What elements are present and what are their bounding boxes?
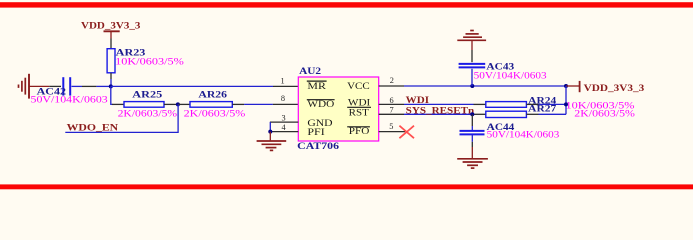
vertical wire right (VDD down to AR24/AR27)	[565, 86, 567, 114]
wire ground to AC42	[29, 85, 49, 87]
pin 3 wire	[270, 121, 298, 123]
pin 7 RST label	[349, 106, 394, 118]
pin 2 VCC label	[347, 76, 394, 91]
svg-text:WDO_EN: WDO_EN	[67, 122, 119, 132]
pin 5 wire + no-connect X	[379, 126, 414, 139]
pin 4 wire	[270, 131, 298, 133]
pin 8 WDO label	[281, 94, 335, 109]
resistor AR23	[107, 39, 184, 87]
resistor AR24	[474, 96, 636, 111]
svg-text:AR25: AR25	[132, 90, 163, 100]
node C (junction pin3/pin4)	[268, 130, 272, 134]
power port VDD_3V3_3 (top left)	[81, 21, 141, 39]
svg-text:2K/0603/5%: 2K/0603/5%	[184, 109, 246, 119]
wire pin 6 (WDI net)	[379, 103, 404, 105]
svg-text:AR26: AR26	[198, 90, 227, 100]
svg-text:1: 1	[281, 77, 285, 86]
svg-text:SYS_RESETn: SYS_RESETn	[406, 105, 475, 115]
node B (junction AR25/AR26)	[176, 102, 180, 106]
svg-text:PFI: PFI	[307, 127, 324, 137]
node F (junction AR24 row)	[564, 102, 568, 106]
pin 4 PFI label	[282, 123, 325, 137]
ground (left, at AC42)	[19, 74, 30, 99]
pin 5 PFO label	[347, 122, 393, 136]
svg-text:VCC: VCC	[347, 81, 370, 91]
svg-text:6: 6	[390, 96, 394, 105]
wire down to ground	[269, 132, 271, 141]
wire node A down to AR25	[111, 86, 113, 104]
wire WDO_EN	[65, 104, 178, 132]
wire AC44 to ground	[471, 147, 473, 158]
svg-text:VDD_3V3_3: VDD_3V3_3	[584, 83, 645, 93]
svg-text:5: 5	[389, 122, 393, 131]
node E (junction at power port)	[564, 84, 568, 88]
wire pin 7 (SYS_RESETn net)	[379, 113, 404, 115]
svg-text:50V/104K/0603: 50V/104K/0603	[487, 129, 560, 139]
wire node A to pin 1	[111, 85, 273, 87]
wire pin3 down to pin4	[269, 122, 271, 132]
svg-text:10K/0603/5%: 10K/0603/5%	[115, 57, 184, 67]
svg-text:VDD_3V3_3: VDD_3V3_3	[81, 21, 141, 31]
capacitor AC43	[459, 40, 548, 86]
svg-text:50V/104K/0603: 50V/104K/0603	[31, 95, 109, 105]
power port VDD_3V3_3 (right)	[566, 81, 645, 93]
svg-text:CAT706: CAT706	[297, 141, 339, 151]
pin 2 wire to VDD	[379, 85, 404, 87]
svg-text:WDO: WDO	[307, 99, 335, 109]
node D (junction AC43)	[470, 84, 474, 88]
svg-text:WDI: WDI	[406, 95, 430, 105]
svg-text:3: 3	[282, 114, 286, 123]
wire AR26 to pin 8	[244, 103, 273, 105]
node A (junction)	[109, 84, 113, 88]
svg-text:AR27: AR27	[528, 104, 557, 114]
op-amp U1: IC AU2 CAT706 body	[297, 66, 378, 151]
svg-text:2K/0603/5%: 2K/0603/5%	[574, 109, 635, 119]
ground (inverted, above AC43)	[457, 31, 486, 41]
pin 1 MR label	[281, 77, 327, 91]
ground (below IC)	[257, 141, 287, 150]
resistor AR26	[178, 90, 246, 119]
svg-text:7: 7	[390, 106, 394, 115]
wire AC42 to node A	[72, 85, 83, 87]
svg-text:50V/104K/0603: 50V/104K/0603	[474, 71, 548, 81]
resistor AR27	[474, 104, 636, 119]
svg-text:8: 8	[281, 94, 285, 103]
svg-text:MR: MR	[307, 81, 326, 91]
svg-text:AU2: AU2	[299, 66, 322, 76]
pin 3 GND label	[282, 114, 334, 128]
svg-text:WDI: WDI	[348, 97, 370, 107]
pin 6 WDI label	[347, 96, 393, 108]
capacitor AC42	[31, 77, 109, 104]
node G (junction AC44 on SYS_RESETn)	[470, 112, 474, 116]
svg-text:PFO: PFO	[349, 126, 370, 136]
resistor AR25	[112, 90, 178, 119]
ground (below AC44)	[457, 159, 488, 168]
capacitor AC44	[460, 114, 560, 147]
svg-text:2K/0603/5%: 2K/0603/5%	[118, 109, 178, 119]
svg-text:RST: RST	[349, 108, 370, 118]
svg-text:2: 2	[390, 76, 394, 85]
